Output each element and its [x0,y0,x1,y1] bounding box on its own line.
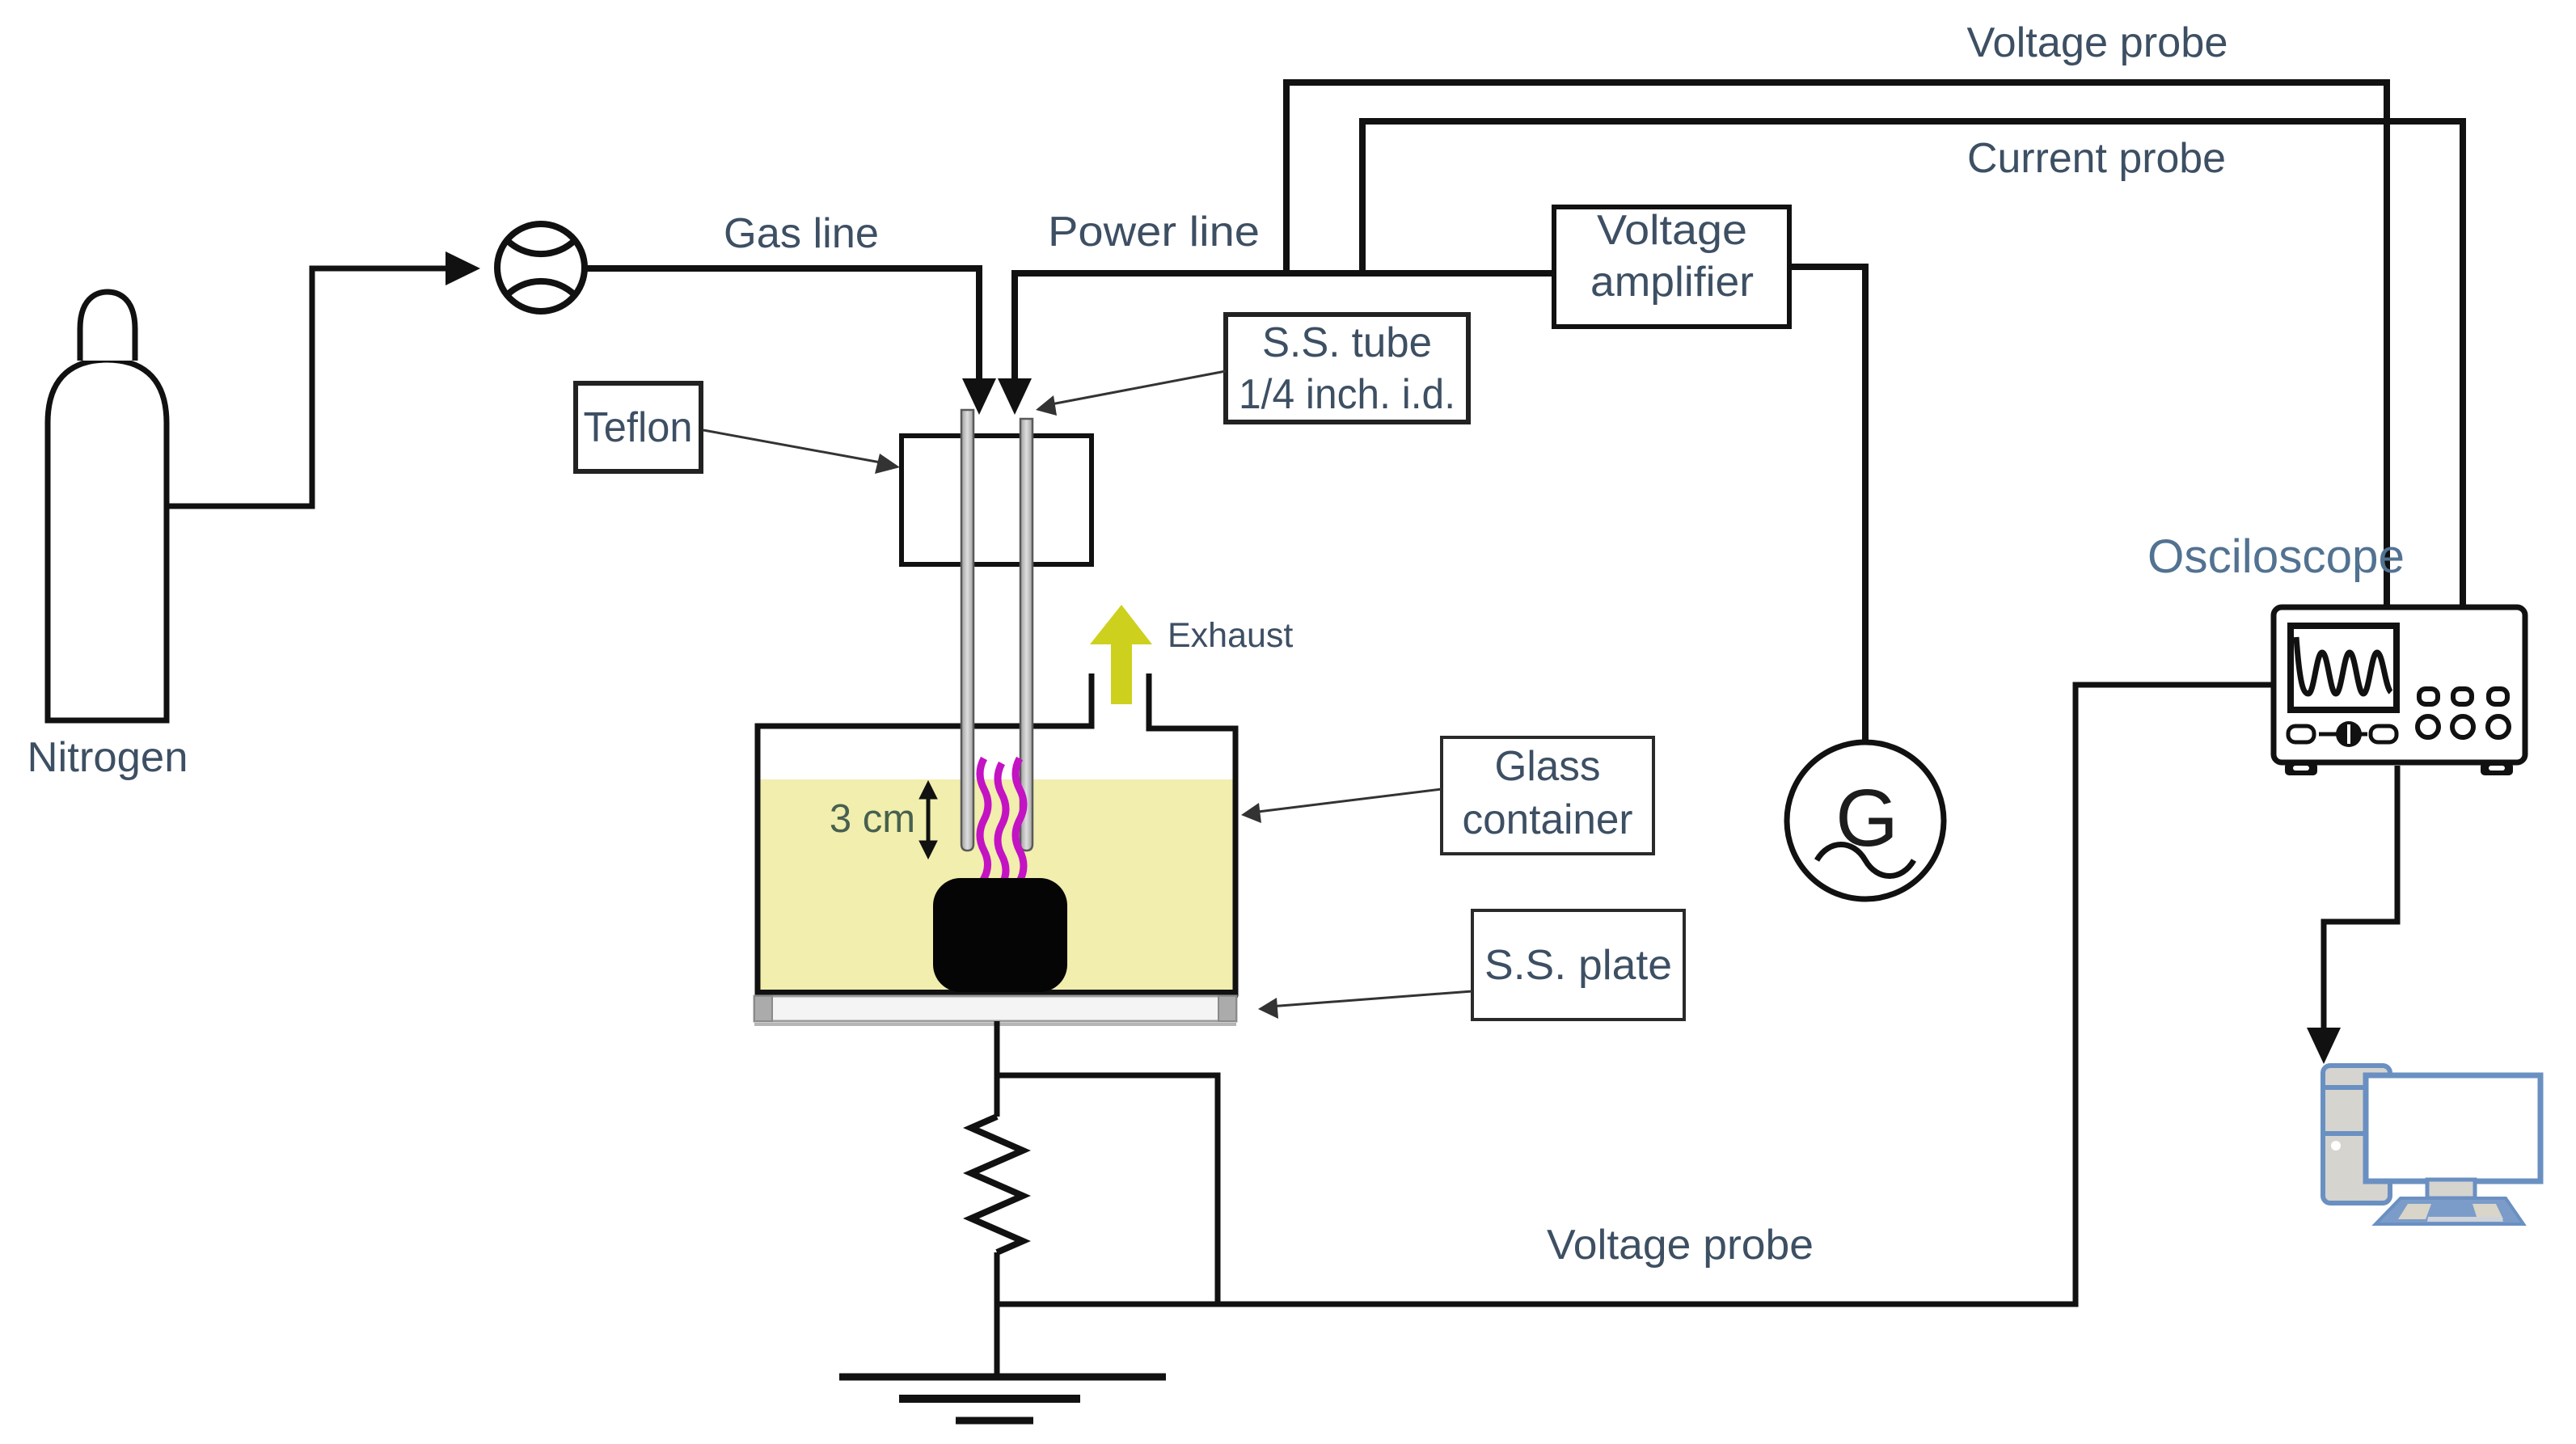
Glass container label box [1442,737,1653,854]
voltage probe wire [1286,82,2387,605]
exhaust arrow [1090,605,1152,704]
computer [2323,1066,2540,1224]
svg-text:Gas line: Gas line [724,210,879,257]
generator G [1787,742,1944,899]
svg-text:amplifier: amplifier [1590,259,1754,306]
svg-text:1/4 inch. i.d.: 1/4 inch. i.d. [1239,371,1455,418]
Glass container label arrow [1252,789,1442,813]
computer tower [2323,1066,2390,1203]
svg-text:Nitrogen: Nitrogen [27,734,188,781]
svg-text:Voltage probe: Voltage probe [1547,1222,1814,1269]
liquid [760,779,1233,992]
voltage probe bottom wire [997,685,2271,1304]
SS tube left [961,410,973,851]
svg-text:Teflon: Teflon [584,404,693,451]
S.S. tube label arrow [1047,371,1226,405]
computer monitor [2366,1075,2540,1181]
arrowhead to computer [2307,1028,2341,1064]
Teflon label box [576,383,701,471]
cylinder valve [80,292,135,361]
svg-text:Glass: Glass [1495,743,1601,790]
wire cylinder to flow meter [167,268,450,506]
power line wire [1015,273,1554,380]
svg-text:G: G [1835,773,1898,863]
dimension arrow [919,781,937,859]
resistor [971,1117,1023,1252]
arrowhead into flow meter [446,251,480,285]
SS tube right [1020,419,1033,851]
svg-text:S.S. tube: S.S. tube [1262,319,1432,366]
current probe wire [1362,121,2463,605]
keyboard [2375,1198,2523,1224]
svg-text:S.S. plate: S.S. plate [1484,942,1672,989]
svg-text:Power line: Power line [1048,209,1260,255]
sample blob [933,878,1067,992]
branch wire [997,1075,1218,1304]
SS plate [754,996,1236,1024]
flow meter [497,224,585,311]
monitor stand [2427,1180,2475,1198]
gas line arrowhead [962,378,996,415]
nitrogen cylinder [48,360,167,720]
wire plate down [995,1021,1000,1117]
glass container [758,673,1235,994]
power line arrowhead [998,378,1032,415]
ground [839,1377,1166,1421]
gas line wire [583,268,979,380]
voltage amplifier box [1554,207,1789,327]
svg-text:Current probe: Current probe [1967,135,2226,182]
teflon block [902,436,1092,564]
svg-text:Exhaust: Exhaust [1168,616,1293,655]
oscilloscope [2274,607,2525,775]
wire oscilloscope to computer [2324,766,2397,1028]
container bottom edge [755,990,1238,998]
svg-text:Voltage probe: Voltage probe [1967,19,2228,66]
S.S. tube label box [1226,315,1468,422]
S.S. plate label box [1472,910,1684,1020]
plasma squiggles [979,758,1024,886]
svg-text:3 cm: 3 cm [830,797,915,841]
wire resistor to ground [995,1252,1000,1377]
svg-text:Voltage: Voltage [1597,207,1747,254]
wire amplifier to generator [1789,267,1865,741]
S.S. plate label arrow [1269,991,1472,1007]
Teflon label arrow [703,430,889,464]
svg-text:container: container [1463,796,1633,843]
svg-text:Osciloscope: Osciloscope [2147,530,2405,583]
